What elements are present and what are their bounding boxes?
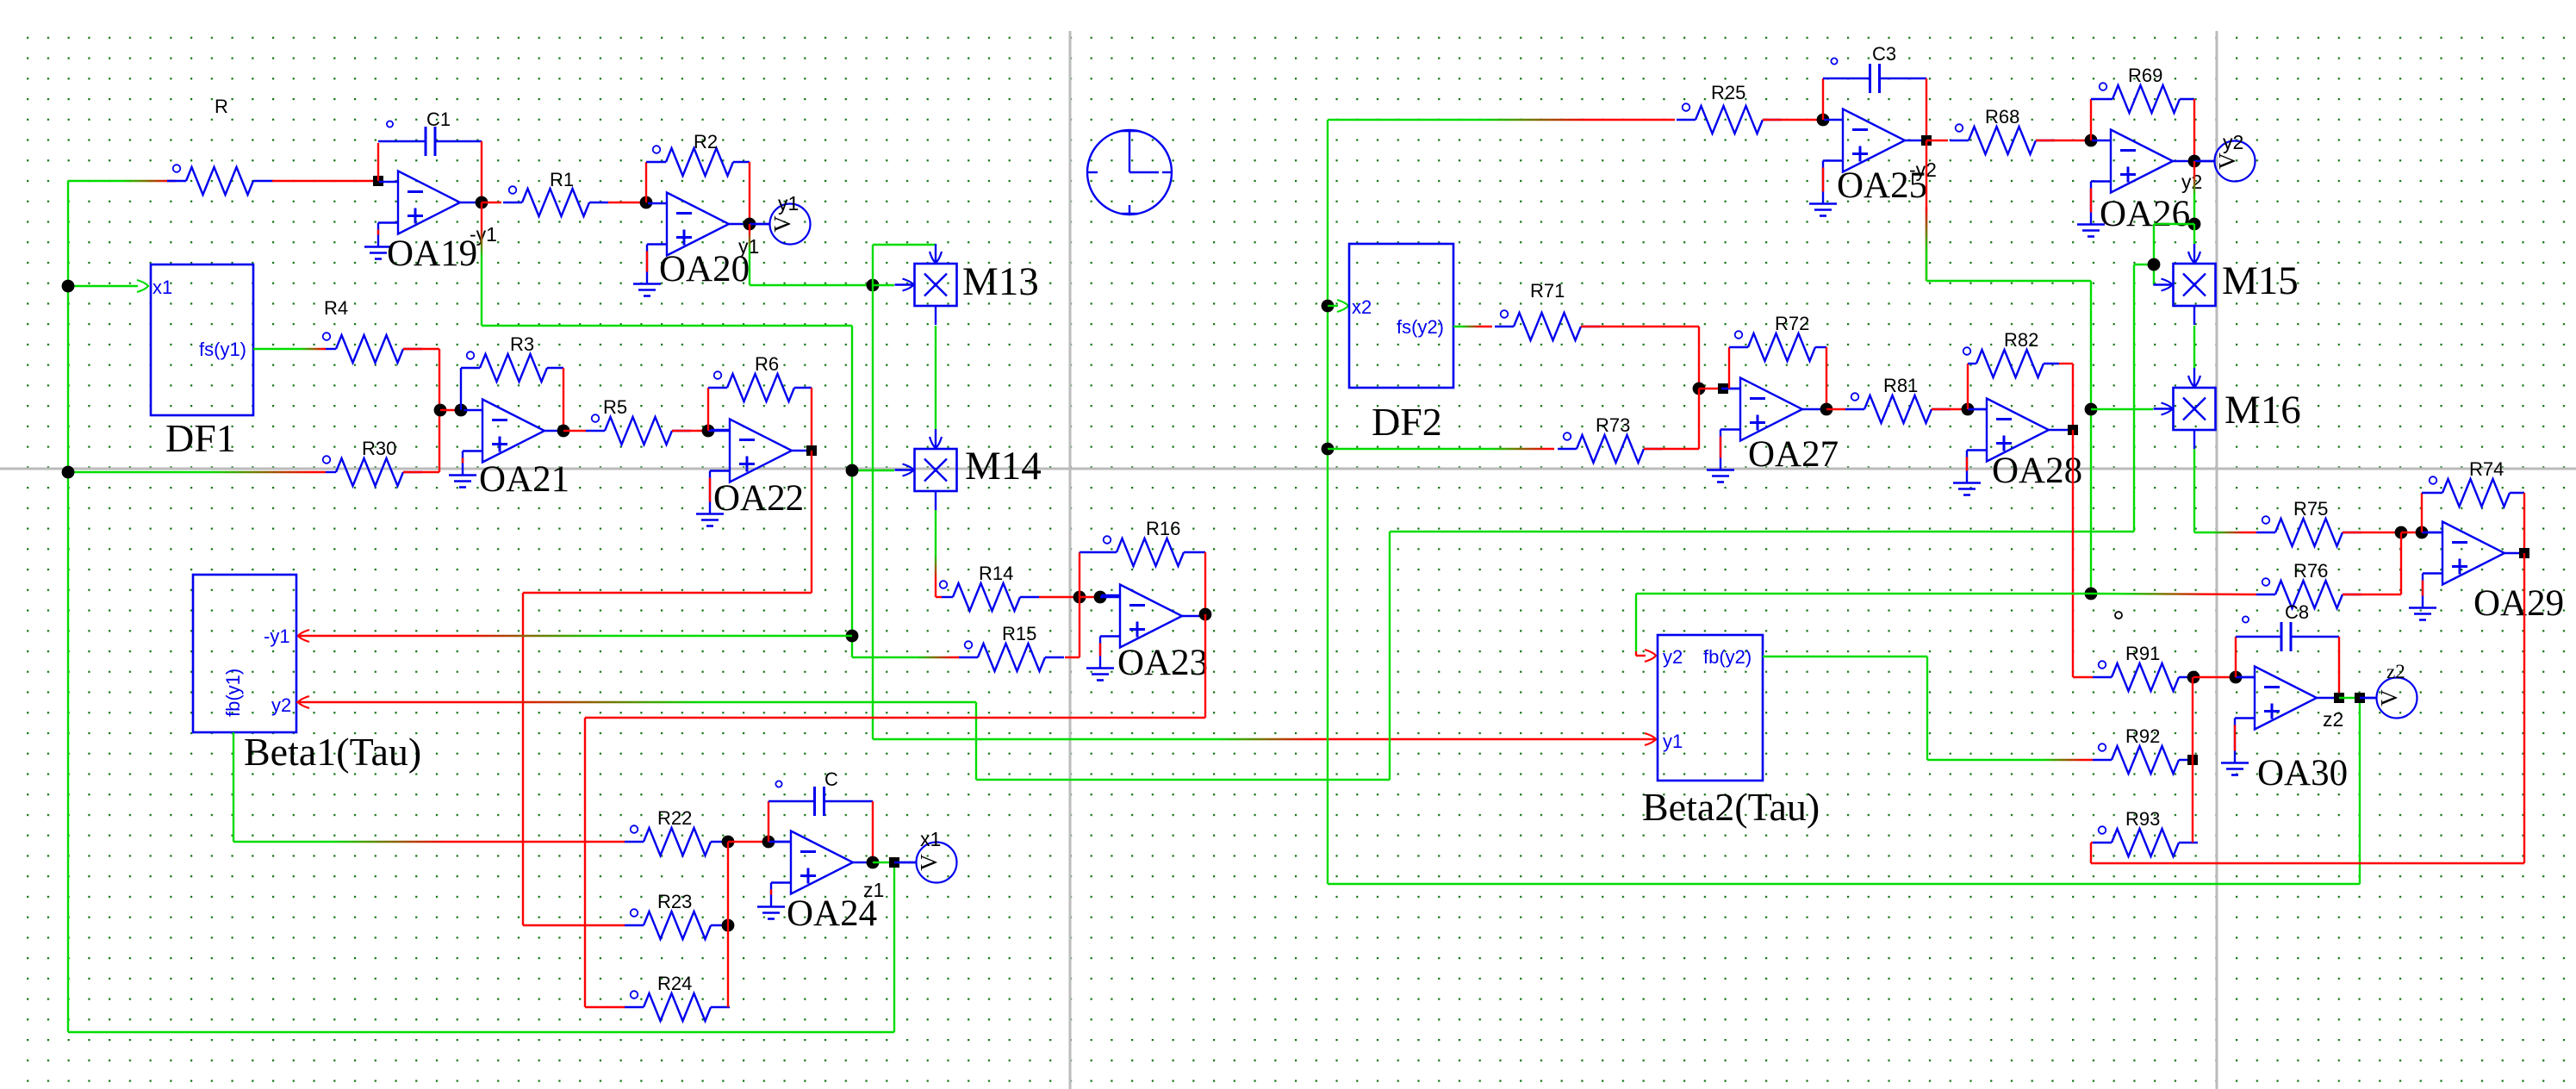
node OA23 input a bbox=[1073, 591, 1086, 604]
svg-text:OA26: OA26 bbox=[2100, 194, 2190, 234]
wire OA24 output to probe bbox=[894, 862, 916, 863]
svg-text:z1: z1 bbox=[863, 879, 884, 901]
wire R3 left riser bbox=[460, 368, 462, 410]
wire y2 net to Beta1 y2 port bbox=[296, 701, 976, 703]
wire x1 net to DF1 x1 port bbox=[68, 285, 138, 287]
wire -y2 drop from OA25 out bbox=[1926, 140, 1927, 281]
resistor R76 bbox=[2256, 578, 2361, 608]
wire x2 net vertical bus bbox=[1327, 120, 1328, 884]
wire -y1 row to Beta1 -y1 port bbox=[296, 635, 852, 637]
resistor R92 bbox=[2093, 744, 2198, 774]
wire C1 right riser to OA19 output bbox=[481, 141, 482, 202]
node OA23 input b bbox=[1094, 591, 1107, 604]
node OA25 inverting input bbox=[1817, 114, 1830, 127]
wire z2 bottom run bbox=[1328, 883, 2360, 885]
svg-text:R74: R74 bbox=[2469, 458, 2504, 480]
arrow into Beta2 y2 bbox=[1645, 650, 1656, 662]
svg-text:R71: R71 bbox=[1530, 280, 1565, 302]
svg-text:R3: R3 bbox=[510, 333, 534, 355]
wire R6 left riser bbox=[707, 388, 709, 431]
wire OA22 output drop bbox=[811, 451, 812, 593]
wire y1 riser to M13 top bbox=[872, 245, 874, 285]
svg-text:OA21: OA21 bbox=[479, 459, 569, 500]
wire R bus bbox=[2192, 677, 2193, 843]
svg-text:C1: C1 bbox=[426, 109, 451, 130]
resistor R24 bbox=[625, 991, 730, 1021]
wire R73 riser bbox=[1698, 389, 1700, 449]
svg-text:y2: y2 bbox=[2223, 131, 2243, 153]
wire R4 riser down to OA21 input bbox=[439, 349, 440, 410]
wire y2 net long run bbox=[1390, 531, 2134, 532]
svg-text:V: V bbox=[916, 854, 942, 871]
wire R71 drop to OA27 input bbox=[1698, 327, 1700, 389]
resistor R74 bbox=[2422, 476, 2510, 507]
svg-text:V: V bbox=[2214, 152, 2240, 170]
wire fb(y1) drop bbox=[233, 732, 234, 842]
svg-text:Beta1(Tau): Beta1(Tau) bbox=[244, 730, 421, 774]
wire -y2 to R76 bbox=[2091, 594, 2256, 594]
node open connector circle bbox=[2115, 612, 2122, 619]
svg-text:fs(y1): fs(y1) bbox=[199, 339, 246, 360]
node OA21 inverting input b bbox=[455, 404, 468, 417]
wire R15 to riser bbox=[1065, 657, 1080, 658]
wire x1 net to R30 bbox=[68, 471, 326, 473]
wire into Beta2 y2 bbox=[1636, 655, 1646, 657]
wire into OA22 inverting input bbox=[708, 430, 730, 432]
op-amp OA25 bbox=[1809, 109, 1925, 216]
resistor R2 bbox=[646, 146, 733, 176]
wire R30 to riser bbox=[403, 471, 439, 473]
arrow into Beta1 y2 bbox=[298, 696, 309, 708]
subcircuit Beta2 box bbox=[1658, 635, 1763, 781]
svg-text:OA23: OA23 bbox=[1117, 643, 1208, 683]
wire R14 to OA23 input bbox=[1039, 596, 1080, 598]
wire link bbox=[2401, 532, 2422, 533]
wire -y2 column bbox=[2090, 281, 2092, 594]
node R22 right bbox=[722, 836, 735, 849]
svg-text:R75: R75 bbox=[2293, 498, 2328, 520]
wire C1 right top bbox=[435, 140, 482, 142]
wire OA22 bus run left bbox=[523, 592, 812, 594]
wire Beta2 y2 link bbox=[1635, 651, 1637, 656]
resistor R15 bbox=[959, 641, 1064, 671]
node OA22 output bbox=[806, 445, 817, 456]
svg-text:-y1: -y1 bbox=[470, 223, 497, 246]
node OA20 output y1 bbox=[744, 218, 756, 231]
wire into OA29 bbox=[2422, 532, 2442, 533]
wire OA22 bus drop bbox=[522, 593, 524, 925]
resistor R16 bbox=[1080, 536, 1184, 566]
svg-text:R: R bbox=[215, 96, 228, 117]
svg-text:R73: R73 bbox=[1596, 414, 1630, 436]
wire C left riser bbox=[768, 801, 769, 842]
resistor R71 bbox=[1495, 310, 1600, 340]
sheet border vertical gray line 2 bbox=[2216, 31, 2218, 1089]
wire R82 corner bbox=[2059, 363, 2073, 364]
op-amp OA30 bbox=[2221, 667, 2336, 775]
svg-text:R4: R4 bbox=[324, 297, 348, 319]
svg-text:R72: R72 bbox=[1775, 313, 1809, 334]
wire OA20 output to probe bbox=[750, 223, 770, 225]
wire R81 to OA28 input bbox=[1932, 408, 1968, 410]
op-amp OA20 bbox=[633, 193, 749, 296]
wire y2 net run right bbox=[976, 779, 1390, 781]
node OA29 input b bbox=[2416, 526, 2429, 539]
arrow into DF1 x1 bbox=[137, 280, 148, 292]
wire node link OA27 bbox=[1699, 388, 1723, 389]
svg-text:DF2: DF2 bbox=[1372, 400, 1442, 444]
resistor R93 bbox=[2093, 826, 2198, 856]
op-amp OA26 bbox=[2077, 130, 2193, 237]
resistor R73 bbox=[1558, 432, 1663, 463]
node x2 tee to DF2 bbox=[1322, 300, 1335, 313]
wire M16 output drop bbox=[2193, 449, 2195, 532]
wire C right riser bbox=[872, 801, 874, 862]
svg-text:C3: C3 bbox=[1872, 43, 1896, 65]
sheet border horizontal gray line bbox=[0, 468, 2576, 470]
wire z2 riser to OA30 output bbox=[2359, 698, 2361, 884]
wire C left top bbox=[768, 800, 815, 802]
wire into OA24 input bbox=[768, 841, 791, 843]
wire y1 net drop from OA20 output bbox=[749, 224, 750, 285]
wire OA24 output link bbox=[873, 862, 894, 863]
svg-text:V: V bbox=[2376, 689, 2402, 706]
arrow into Beta1 -y1 bbox=[298, 630, 309, 642]
wire into OA30 bbox=[2236, 676, 2255, 678]
svg-text:z2: z2 bbox=[2323, 708, 2343, 731]
wire C8 left riser bbox=[2235, 637, 2237, 677]
svg-text:R22: R22 bbox=[657, 807, 692, 829]
svg-text:OA19: OA19 bbox=[387, 233, 477, 274]
svg-text:R1: R1 bbox=[550, 169, 574, 190]
svg-text:OA27: OA27 bbox=[1748, 434, 1839, 475]
wire C8 left top bbox=[2236, 636, 2281, 638]
wire R74 right riser bbox=[2523, 493, 2525, 553]
node OA21 inverting input a bbox=[434, 404, 447, 417]
wire R16 right lead bbox=[1184, 551, 1205, 553]
wire R82 right lead bbox=[2044, 363, 2059, 364]
subcircuit Beta1 box bbox=[193, 575, 296, 732]
node OA22 inverting input bbox=[702, 425, 715, 438]
svg-text:V: V bbox=[769, 215, 795, 233]
wire M15 output to M16 top bbox=[2193, 326, 2195, 368]
wire -y1 drop from OA19 output bbox=[481, 202, 482, 326]
wire into OA23 inverting input bbox=[1100, 596, 1120, 598]
arrow into DF2 x2 bbox=[1337, 300, 1348, 312]
wire OA28 output drop bbox=[2072, 430, 2074, 677]
wire OA29 output drop bbox=[2523, 553, 2525, 863]
wire fs(y2) to R71 bbox=[1453, 326, 1492, 327]
wire riser to R93 bbox=[2090, 843, 2092, 863]
wire R72 right lead bbox=[1815, 346, 1826, 348]
resistor R1 bbox=[503, 186, 608, 216]
node x1 tee to R30 bbox=[62, 466, 75, 479]
resistor R75 bbox=[2256, 516, 2361, 546]
op-amp OA29 bbox=[2409, 522, 2524, 620]
wire R16 right riser bbox=[1204, 552, 1206, 614]
wire y2 net drop at x=1133 bbox=[975, 702, 977, 780]
wire fb(y1) to R22 bbox=[233, 841, 625, 843]
wire R3 right lead bbox=[547, 367, 563, 369]
svg-text:C: C bbox=[824, 769, 838, 790]
node OA24 output b bbox=[889, 857, 899, 868]
svg-text:R76: R76 bbox=[2293, 560, 2328, 582]
multiplier M16 bbox=[2154, 368, 2216, 449]
svg-text:R93: R93 bbox=[2125, 808, 2160, 830]
wire -y2 to M16 left pin bbox=[2091, 408, 2153, 410]
probe y2 bbox=[2199, 141, 2256, 182]
svg-text:fb(y1): fb(y1) bbox=[222, 669, 244, 717]
svg-text:M14: M14 bbox=[965, 444, 1042, 488]
subcircuit DF2 box bbox=[1349, 244, 1453, 388]
wire R16 left riser bbox=[1079, 552, 1080, 597]
svg-text:OA20: OA20 bbox=[659, 249, 750, 289]
wire M14 left input from -y1 bbox=[852, 470, 894, 471]
capacitor C bbox=[775, 781, 824, 816]
wire OA30 output link bbox=[2339, 697, 2360, 699]
wire OA29 bottom run bbox=[2091, 862, 2524, 864]
wire y2 net riser at x=1613 bbox=[1389, 532, 1391, 780]
svg-text:R68: R68 bbox=[1985, 106, 2019, 128]
wire M14 output drop bbox=[935, 510, 936, 597]
svg-text:R24: R24 bbox=[657, 973, 692, 994]
svg-text:OA30: OA30 bbox=[2257, 753, 2348, 793]
svg-text:R30: R30 bbox=[362, 438, 396, 459]
wire y1 to M13 top pin bbox=[873, 244, 936, 246]
svg-text:y2: y2 bbox=[271, 694, 291, 716]
wire M14 to R14 corner bbox=[935, 596, 936, 598]
capacitor C1 bbox=[387, 121, 435, 156]
wire R69 right lead bbox=[2180, 98, 2194, 100]
node OA19 inverting input bbox=[373, 176, 383, 186]
resistor R bbox=[167, 165, 272, 195]
node R92 right bbox=[2187, 755, 2198, 765]
wire -y1 to R15 bbox=[852, 657, 959, 658]
node OA29 output bbox=[2519, 548, 2529, 558]
wire C3 right riser bbox=[1926, 78, 1927, 140]
resistor R30 bbox=[323, 456, 422, 486]
wire C1 left top bbox=[378, 140, 426, 142]
svg-text:R5: R5 bbox=[603, 396, 627, 418]
multiplier M13 bbox=[895, 244, 957, 325]
svg-text:-y2: -y2 bbox=[1909, 159, 1937, 181]
wire M13 output to M14 top bbox=[935, 326, 936, 429]
wire R1 to OA20 inverting input bbox=[608, 202, 646, 203]
wire R73 to riser bbox=[1644, 448, 1699, 450]
wire R6 right lead bbox=[794, 387, 812, 389]
svg-text:M13: M13 bbox=[962, 259, 1039, 304]
node y2 tee bbox=[2188, 218, 2201, 231]
probe x1 bbox=[900, 843, 957, 883]
probe y1 bbox=[754, 204, 811, 245]
svg-text:R25: R25 bbox=[1711, 82, 1745, 103]
wire fs(y1) to R4 bbox=[253, 348, 326, 350]
wire OA26 output to probe bbox=[2194, 160, 2214, 162]
wire node to node bbox=[1080, 596, 1100, 598]
resistor R22 bbox=[625, 825, 730, 856]
op-amp OA27 bbox=[1707, 378, 1822, 482]
wire OA23 drop to R24 bbox=[584, 718, 586, 1007]
wire OA23 output drop bbox=[1204, 614, 1206, 718]
svg-text:Beta2(Tau): Beta2(Tau) bbox=[1642, 785, 1820, 829]
svg-text:R15: R15 bbox=[1002, 623, 1036, 644]
svg-text:fb(y2): fb(y2) bbox=[1703, 646, 1752, 668]
resistor R5 bbox=[586, 414, 691, 445]
resistor R3 bbox=[461, 352, 547, 382]
svg-text:R23: R23 bbox=[657, 891, 692, 912]
node OA30 inverting input bbox=[2230, 671, 2243, 684]
node OA23 output bbox=[1199, 608, 1212, 621]
node OA30 output b bbox=[2355, 693, 2365, 703]
svg-text:R6: R6 bbox=[755, 353, 779, 375]
node x1 tee to DF1 bbox=[62, 280, 75, 293]
wire R72 right riser bbox=[1826, 347, 1827, 409]
wire R to OA19 inverting input bbox=[272, 180, 378, 182]
wire C3 left top bbox=[1823, 78, 1870, 79]
wire C3 left riser bbox=[1822, 78, 1824, 120]
op-amp OA21 bbox=[449, 400, 564, 488]
wire y2 drop into M15 top bbox=[2193, 224, 2195, 244]
wire R2 left riser bbox=[645, 162, 647, 202]
wire to OA21 inverting input bbox=[440, 409, 461, 411]
node x2 tee to R73 bbox=[1322, 443, 1335, 456]
wire R30 riser up to OA21 input bbox=[439, 410, 440, 472]
op-amp OA19 bbox=[364, 171, 480, 259]
wire OA27 output to R81 bbox=[1826, 408, 1845, 410]
svg-text:M16: M16 bbox=[2224, 388, 2301, 432]
node OA20 inverting input bbox=[640, 196, 653, 209]
resistor R82 bbox=[1963, 347, 2044, 377]
wire R69 right riser bbox=[2193, 99, 2195, 161]
wire R25 to OA25 input bbox=[1763, 119, 1823, 121]
wire into OA28 input bbox=[1968, 408, 1987, 410]
wire R76 right bbox=[2343, 594, 2401, 595]
resistor R23 bbox=[625, 909, 730, 939]
wire C3 right top bbox=[1880, 78, 1926, 79]
wire R2 right riser bbox=[749, 162, 750, 224]
wire y1 net drop to row 857 bbox=[872, 285, 874, 739]
wire OA21 output to R5 bbox=[563, 430, 586, 432]
wire OA23 output run left bbox=[585, 717, 1205, 719]
svg-text:DF1: DF1 bbox=[165, 416, 236, 460]
wire C1 left riser bbox=[377, 143, 379, 181]
svg-text:R91: R91 bbox=[2125, 643, 2160, 664]
wire R15 riser to OA23 node bbox=[1079, 597, 1080, 657]
wire x1 net bottom run bbox=[68, 1031, 894, 1033]
wire R75 to OA29 bbox=[2343, 532, 2401, 533]
capacitor C8 bbox=[2243, 616, 2291, 651]
wire OA28 to R91 bbox=[2073, 676, 2093, 678]
wire R76 riser bbox=[2400, 532, 2402, 594]
resistor R69 bbox=[2091, 83, 2180, 113]
clock symbol bbox=[1087, 130, 1172, 215]
wire R91 to OA30 input bbox=[2193, 676, 2236, 678]
svg-text:R2: R2 bbox=[694, 131, 718, 152]
wire OA25 output to R68 bbox=[1926, 140, 1948, 141]
resistor R72 bbox=[1729, 331, 1815, 361]
wire -y1 drop at x=989 bbox=[851, 326, 853, 657]
capacitor C3 bbox=[1831, 58, 1879, 93]
node -y2 tee to R76 bbox=[2085, 588, 2098, 601]
wire M14 corner to R14 lead bbox=[936, 596, 942, 598]
wire y2 column drop bbox=[2153, 224, 2155, 285]
svg-text:x2: x2 bbox=[1352, 296, 1372, 318]
svg-text:R92: R92 bbox=[2125, 725, 2160, 747]
wire x2 to DF2 port bbox=[1328, 305, 1338, 307]
resistor R25 bbox=[1677, 103, 1782, 134]
wire -y2 run right bbox=[1926, 280, 2091, 282]
wire y1 net run to M13 column bbox=[750, 284, 873, 286]
wire y2 net link bbox=[2134, 264, 2154, 265]
wire R69 left riser bbox=[2090, 99, 2092, 140]
wire R2 right lead bbox=[733, 161, 750, 163]
resistor R81 bbox=[1845, 393, 1951, 423]
node OA24 inverting input bbox=[762, 836, 775, 849]
resistor R14 bbox=[940, 581, 1039, 611]
wire OA22 bus to R23 bbox=[523, 924, 625, 926]
node OA27 output bbox=[1820, 403, 1833, 416]
node -y2 tee to M16 bbox=[2085, 403, 2098, 416]
node R23 right bbox=[722, 919, 735, 932]
node R91 right bbox=[2187, 671, 2200, 684]
wire C8 right riser bbox=[2338, 637, 2340, 698]
svg-text:R69: R69 bbox=[2128, 65, 2162, 86]
resistor R91 bbox=[2093, 661, 2198, 691]
wire C right top bbox=[824, 800, 873, 802]
wire summing to OA24 bbox=[728, 841, 768, 843]
wire R82 right riser bbox=[2072, 364, 2074, 430]
wire R74 right lead bbox=[2510, 492, 2524, 494]
svg-text:R82: R82 bbox=[2004, 329, 2038, 351]
multiplier M14 bbox=[895, 429, 957, 510]
node y2 tee2 bbox=[2148, 258, 2161, 271]
wire fb(y2) to R92 bbox=[1927, 759, 2093, 761]
node OA27 inverting input a bbox=[1693, 383, 1706, 395]
wire to R93 bbox=[2091, 842, 2093, 843]
op-amp OA28 bbox=[1953, 399, 2069, 495]
node OA27 inverting input b bbox=[1718, 383, 1728, 394]
svg-text:x1: x1 bbox=[152, 277, 172, 298]
subcircuit DF1 box bbox=[151, 264, 253, 415]
wire x1 net vertical left bus bbox=[67, 181, 69, 1032]
wire y2 drop from output bbox=[2193, 161, 2195, 224]
arrow into Beta2 y1 bbox=[1645, 733, 1656, 745]
node OA26 output y2 bbox=[2188, 155, 2201, 168]
resistor R68 bbox=[1950, 124, 2055, 154]
svg-text:y2: y2 bbox=[1663, 646, 1683, 668]
wire fb(y2) drop bbox=[1926, 657, 1928, 760]
sheet border vertical gray line 1 bbox=[1069, 31, 1072, 1089]
node OA26 inverting input bbox=[2085, 134, 2098, 147]
wire y2 to left column bbox=[2154, 223, 2194, 225]
resistor R6 bbox=[708, 371, 794, 401]
wire R3 right riser bbox=[563, 368, 564, 431]
wire R6 right riser bbox=[811, 388, 812, 451]
svg-text:fs(y2): fs(y2) bbox=[1397, 316, 1444, 338]
wire R72 left riser bbox=[1728, 347, 1730, 389]
op-amp OA24 bbox=[757, 831, 873, 919]
wire x2 net to R73 bbox=[1328, 448, 1554, 450]
wire x1 net to resistor R bbox=[68, 180, 176, 182]
node -y1 tee to M14 bbox=[846, 464, 859, 477]
wire summing bus bbox=[727, 842, 729, 1007]
svg-text:y1: y1 bbox=[1663, 731, 1683, 752]
svg-text:OA29: OA29 bbox=[2473, 583, 2564, 624]
multiplier M15 bbox=[2154, 244, 2216, 325]
wire M16 output to R75 bbox=[2194, 532, 2256, 533]
wire OA30 output to probe bbox=[2360, 697, 2376, 699]
svg-text:R81: R81 bbox=[1883, 375, 1918, 396]
